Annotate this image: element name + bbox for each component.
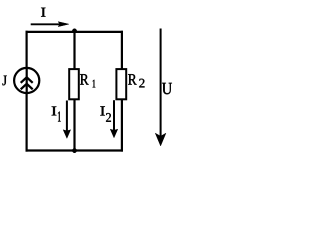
wire top bbox=[26, 31, 124, 33]
label I2 sub 2 bbox=[106, 113, 111, 122]
label R1 sub 1 bbox=[93, 80, 96, 88]
wire right (R2 branch) bbox=[121, 31, 123, 152]
current source chevron upper bbox=[21, 77, 33, 83]
label I2 I bbox=[100, 106, 105, 115]
label R2 sub 2 bbox=[139, 79, 144, 88]
label R2 R bbox=[128, 74, 137, 84]
current source J (circle) bbox=[14, 68, 39, 93]
current source arrow shaft bbox=[26, 68, 28, 93]
label I1 I bbox=[52, 107, 57, 116]
label I1 sub 1 bbox=[58, 112, 61, 122]
current I1 arrow bbox=[63, 101, 70, 139]
label U bbox=[162, 83, 172, 94]
wire bottom bbox=[26, 149, 124, 151]
current I arrow bbox=[31, 22, 69, 27]
resistor R2 bbox=[116, 69, 126, 99]
node dot bottom (R1 junction) bbox=[72, 148, 76, 152]
label I bbox=[41, 8, 45, 17]
wire left bbox=[26, 31, 28, 152]
voltage U arrow bbox=[155, 29, 166, 146]
current source chevron lower bbox=[21, 84, 33, 90]
current I2 arrow bbox=[110, 100, 117, 138]
label R1 R bbox=[80, 74, 89, 84]
node dot top (R1 junction) bbox=[72, 29, 76, 33]
label J bbox=[3, 76, 7, 86]
wire branch R1 bbox=[73, 31, 75, 151]
resistor R1 bbox=[69, 69, 79, 99]
